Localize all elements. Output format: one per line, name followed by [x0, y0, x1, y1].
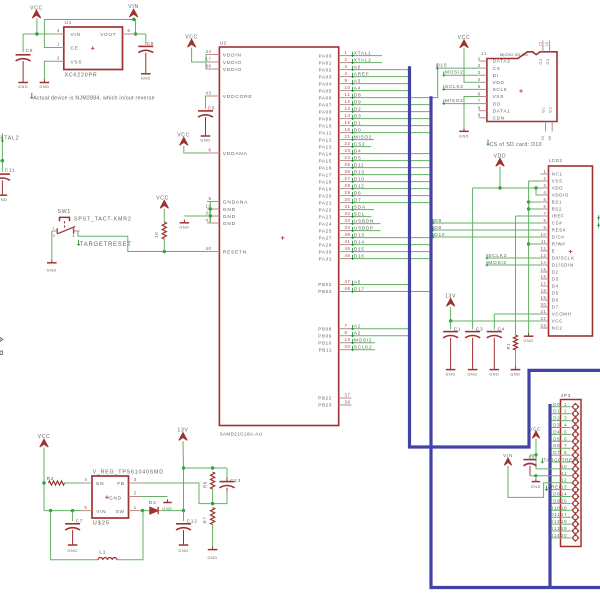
- svg-text:1: 1: [478, 56, 481, 61]
- wire net D10 to SD CS: [431, 68, 479, 98]
- svg-text:VDDCORE: VDDCORE: [223, 94, 253, 100]
- U2 pin 39 PA27 net D13: [339, 237, 352, 239]
- wire net D16: [351, 258, 429, 260]
- node BS2 junction: [527, 207, 530, 210]
- ground under C1: [450, 366, 452, 369]
- wire net D1: [351, 125, 429, 127]
- svg-text:SCLK2: SCLK2: [445, 84, 464, 90]
- net label SCLK2 (LCD): [486, 254, 488, 259]
- svg-text:D7: D7: [552, 305, 559, 310]
- svg-text:GND: GND: [446, 373, 456, 377]
- LCD2 pin 10 D/C#: [541, 236, 549, 238]
- wire VIN to JP3 pin 12: [508, 466, 573, 498]
- JP3 pin 19 pad: [572, 528, 579, 535]
- wire VDDIO branch: [536, 188, 541, 195]
- wire net D10 to LCD D/C#: [432, 236, 540, 238]
- ground under C7: [72, 542, 74, 545]
- svg-text:23: 23: [345, 148, 351, 153]
- svg-text:9: 9: [544, 225, 547, 230]
- svg-text:MISO2: MISO2: [445, 98, 464, 104]
- svg-text:D1: D1: [553, 409, 560, 414]
- svg-text:8: 8: [544, 218, 547, 223]
- svg-text:7: 7: [564, 443, 567, 448]
- ground under C3: [472, 366, 474, 369]
- svg-text:D11: D11: [354, 162, 364, 168]
- svg-text:2: 2: [564, 409, 567, 414]
- resistor R7: [211, 508, 215, 525]
- JP3 pin 5 pad: [572, 431, 579, 438]
- svg-text:C9: C9: [26, 48, 34, 54]
- svg-text:20: 20: [345, 344, 351, 349]
- svg-text:32: 32: [345, 211, 351, 216]
- U2 pin 10 PA05 net A4: [339, 90, 352, 92]
- svg-text:CS2: CS2: [354, 141, 365, 147]
- net label D8: [352, 94, 354, 99]
- LCD2 pin 22 VCC: [541, 320, 549, 322]
- U2 pin 2 PA01 net XTAL2: [339, 62, 352, 64]
- bus digital (D0-D17): [431, 96, 600, 587]
- wire net D9: [351, 104, 429, 106]
- svg-text:D13: D13: [550, 526, 560, 531]
- svg-text:DATA1: DATA1: [493, 108, 511, 113]
- wire net MISO2: [351, 139, 374, 141]
- svg-text:11: 11: [541, 239, 547, 244]
- node VIN junction: [35, 32, 38, 35]
- svg-text:17: 17: [561, 512, 567, 517]
- svg-text:14: 14: [345, 113, 351, 118]
- svg-text:36: 36: [548, 136, 552, 141]
- JP3 pin 3 pad: [572, 417, 579, 424]
- svg-text:NC1: NC1: [552, 172, 563, 177]
- U$25 pin 3 FB: [129, 482, 142, 484]
- svg-text:SW: SW: [116, 509, 125, 515]
- LCD2 pin 19 D6: [541, 299, 549, 301]
- net label D0: [352, 129, 354, 134]
- LCD2 pin 11 R/W#: [541, 243, 549, 245]
- LCD2 pin 18 D5: [541, 292, 549, 294]
- net label XTAL1: [352, 52, 354, 57]
- svg-text:D5: D5: [354, 155, 362, 161]
- capacitor C1: [450, 321, 452, 329]
- LCD2 pin 13 D0/SCLK: [541, 257, 549, 259]
- svg-text:PB08: PB08: [318, 326, 332, 331]
- net label A3: [352, 80, 354, 85]
- capacitor C6 (VCC decoupling): [530, 454, 536, 456]
- ground under C11: [1, 192, 3, 195]
- wire JP3 pin 18: [552, 523, 571, 525]
- net label TARGETRESET: [78, 240, 80, 246]
- svg-text:47: 47: [345, 279, 351, 284]
- svg-text:16: 16: [345, 127, 351, 132]
- wire net USBDN: [351, 223, 380, 225]
- wire IREF to R1: [516, 215, 541, 217]
- node SW junction: [141, 509, 144, 512]
- svg-text:22: 22: [541, 316, 547, 321]
- svg-text:43: 43: [205, 91, 211, 96]
- wire net D4: [351, 153, 429, 155]
- wire net D6: [351, 195, 429, 197]
- svg-text:CS#: CS#: [552, 221, 563, 226]
- svg-text:48: 48: [345, 286, 351, 291]
- node GND junction: [534, 474, 537, 477]
- svg-text:D5: D5: [553, 436, 560, 441]
- LCD2 pin 15 D2: [541, 271, 549, 273]
- svg-text:D1/SDIN: D1/SDIN: [552, 263, 574, 268]
- svg-text:J1: J1: [481, 51, 487, 56]
- svg-text:V_REG_TPS61040SMD: V_REG_TPS61040SMD: [93, 470, 164, 476]
- svg-text:3: 3: [564, 416, 567, 421]
- svg-text:D9: D9: [553, 498, 560, 503]
- svg-text:2: 2: [57, 55, 60, 60]
- svg-text:8: 8: [564, 450, 567, 455]
- wire JP3 pin 1: [552, 406, 571, 408]
- svg-text:SPST_TACT-KMR2: SPST_TACT-KMR2: [74, 216, 132, 222]
- wire net D15: [351, 251, 429, 253]
- svg-text:D0: D0: [354, 127, 362, 133]
- wire net D11: [351, 167, 429, 169]
- svg-text:9: 9: [478, 113, 481, 118]
- net label D10 (SD): [436, 64, 438, 69]
- svg-text:23: 23: [541, 323, 547, 328]
- svg-text:GND: GND: [68, 549, 78, 553]
- wire net D13: [351, 174, 429, 176]
- svg-text:PA09: PA09: [319, 116, 332, 121]
- net label D13: [352, 171, 354, 176]
- svg-text:D8: D8: [434, 218, 442, 224]
- svg-text:D13: D13: [354, 169, 365, 175]
- svg-text:GND: GND: [0, 198, 7, 202]
- U2 pin 36 VDDIO: [207, 68, 219, 70]
- U2 pin 18 GND: [207, 208, 219, 210]
- capacitor C5 (VDDCORE decoupling): [206, 96, 208, 109]
- resistor R6: [211, 472, 215, 489]
- wire 13V output node: [182, 441, 185, 468]
- svg-text:29: 29: [345, 190, 351, 195]
- svg-text:SW1: SW1: [58, 209, 72, 215]
- wire 13V rail: [450, 307, 452, 321]
- wire JP3 pin 16: [552, 509, 571, 511]
- JP3 pin 20 pad: [572, 534, 579, 541]
- U2 pin 35 GND: [207, 215, 219, 217]
- U2 pin 33 PA24 net USBDN: [339, 223, 352, 225]
- U2 pin 1 PA00 net XTAL1: [339, 55, 352, 57]
- ground under LCD VSS: [528, 333, 530, 336]
- svg-text:14: 14: [541, 260, 547, 265]
- J1 pin 7 DO: [479, 103, 487, 105]
- svg-text:U1: U1: [65, 20, 73, 26]
- wire U2 ground to GND symbol: [184, 215, 210, 217]
- svg-text:PA01: PA01: [319, 60, 332, 65]
- U2 pin 44 VDDIN: [207, 54, 219, 56]
- LCD connector LCD2 body: [549, 166, 593, 336]
- svg-text:A1: A1: [354, 324, 361, 330]
- svg-text:17: 17: [205, 57, 211, 62]
- svg-text:GND: GND: [141, 77, 151, 81]
- svg-text:SAMD21G18A-AU: SAMD21G18A-AU: [220, 431, 263, 436]
- svg-text:GND: GND: [489, 373, 499, 377]
- svg-text:PA25: PA25: [319, 228, 332, 233]
- wire VSS/BS ground rail: [529, 180, 541, 182]
- wire net SCLK2 to LCD D0/SCLK: [487, 257, 541, 259]
- svg-text:28: 28: [345, 183, 351, 188]
- svg-text:19: 19: [541, 295, 547, 300]
- net label D7: [352, 199, 354, 204]
- net label MOSI2 (LCD): [486, 261, 488, 266]
- svg-text:16: 16: [561, 505, 567, 510]
- svg-text:12: 12: [561, 478, 567, 483]
- svg-text:15: 15: [561, 498, 567, 503]
- JP3 pin 12 pad: [572, 479, 579, 486]
- svg-text:19: 19: [561, 526, 567, 531]
- svg-text:GND: GND: [223, 221, 236, 227]
- svg-text:VCC: VCC: [529, 426, 541, 431]
- svg-text:D4: D4: [553, 429, 560, 434]
- wire GND to JP3 pin 11: [536, 475, 573, 477]
- svg-text:D10: D10: [354, 176, 365, 182]
- svg-text:SCLK: SCLK: [493, 87, 508, 92]
- LCD2 pin 4 VDDIO: [541, 194, 549, 196]
- wire net A3: [351, 83, 408, 85]
- svg-text:D/C#: D/C#: [552, 235, 565, 240]
- net label SCLK2: [352, 346, 354, 351]
- svg-text:D15: D15: [354, 246, 365, 252]
- wire JP3 pin 2: [552, 413, 571, 415]
- U2 pin 38 PB23 (nc): [339, 404, 352, 406]
- U1 pin 1 CE: [54, 47, 64, 49]
- U1 pin 2 VSS: [54, 60, 64, 62]
- svg-text:PA15: PA15: [319, 158, 332, 163]
- svg-text:1: 1: [52, 226, 55, 231]
- wire SD VSS to ground: [464, 97, 479, 129]
- wire JP3 pin 7: [552, 447, 571, 449]
- svg-text:6: 6: [564, 436, 567, 441]
- net label D10: [352, 178, 354, 183]
- net label USBDN: [352, 220, 354, 225]
- wire pull-up to reset net: [163, 239, 165, 252]
- svg-text:5: 5: [85, 505, 88, 510]
- svg-text:18: 18: [541, 288, 547, 293]
- svg-text:IREF: IREF: [552, 214, 565, 219]
- svg-text:R1: R1: [506, 343, 511, 350]
- ground under SD card: [463, 128, 465, 131]
- svg-text:D7: D7: [354, 197, 362, 203]
- wire JP3 pin 9: [552, 461, 571, 463]
- svg-text:12: 12: [345, 99, 351, 104]
- svg-text:GND: GND: [468, 373, 478, 377]
- wire net A0: [351, 69, 408, 71]
- net label D3: [352, 115, 354, 120]
- ground under U1 VSS: [43, 79, 45, 82]
- net label SCL: [352, 213, 354, 218]
- JP3 pin 1 pad: [572, 403, 579, 410]
- wire net CS2: [351, 146, 371, 148]
- svg-text:VIN: VIN: [96, 509, 106, 515]
- svg-text:PA13: PA13: [319, 144, 332, 149]
- svg-text:30: 30: [345, 197, 351, 202]
- U$25 pin 2 GND: [129, 496, 142, 498]
- U2 pin 26 PA17 net D13: [339, 174, 352, 176]
- node VIN arrow junction: [132, 18, 135, 21]
- svg-text:USBDN: USBDN: [354, 218, 374, 224]
- resistor R1 (IREF): [513, 335, 517, 350]
- node 13V top junction: [182, 466, 185, 469]
- svg-text:7: 7: [478, 98, 481, 103]
- svg-text:PA24: PA24: [319, 221, 332, 226]
- svg-text:8: 8: [478, 106, 481, 111]
- svg-text:VOUT: VOUT: [100, 32, 116, 38]
- net label D1: [352, 122, 354, 127]
- svg-text:41: 41: [345, 239, 351, 244]
- U2 pin 29 PA20 net D6: [339, 195, 352, 197]
- svg-text:G1: G1: [542, 107, 546, 113]
- switch SW1 actuator: [60, 217, 70, 221]
- svg-text:GND: GND: [39, 85, 49, 89]
- J1 pin 3 DI: [479, 74, 487, 76]
- node divider junction: [211, 502, 214, 505]
- svg-text:15: 15: [538, 42, 542, 47]
- svg-text:A4: A4: [354, 85, 361, 91]
- wire net D3: [351, 118, 429, 120]
- svg-text:8: 8: [345, 330, 348, 335]
- svg-text:PB11: PB11: [319, 347, 332, 352]
- node C7 junction: [71, 509, 74, 512]
- svg-text:14: 14: [561, 492, 567, 497]
- svg-text:GND: GND: [223, 214, 236, 220]
- U2 pin 16 PA11 net D0: [339, 132, 352, 134]
- svg-text:VDDIO: VDDIO: [223, 60, 242, 66]
- JP3 pin 7 pad: [572, 445, 579, 452]
- svg-text:36: 36: [205, 64, 211, 69]
- wire net MISO2 to SD DO: [444, 103, 479, 105]
- svg-text:VCOMH: VCOMH: [552, 312, 572, 317]
- wire VCC input rail: [43, 448, 45, 511]
- JP3 pin 9 pad: [572, 459, 579, 466]
- U2 pin 15 PA10 net D1: [339, 125, 352, 127]
- U2 pin 43 VDDCORE: [207, 95, 219, 97]
- node reset pull-up junction: [163, 250, 166, 253]
- svg-text:D3: D3: [553, 423, 560, 428]
- svg-text:D5: D5: [552, 291, 559, 296]
- wire net D7: [351, 202, 429, 204]
- U1 origin cross: [91, 47, 95, 49]
- net label A5: [352, 281, 354, 286]
- svg-text:PB02: PB02: [318, 282, 332, 287]
- wire JP3 pin 14: [552, 496, 571, 498]
- svg-text:22: 22: [345, 141, 351, 146]
- bus JP3 feeder: [548, 404, 551, 588]
- svg-text:GND: GND: [179, 226, 189, 230]
- svg-text:A3: A3: [354, 78, 361, 84]
- wire JP3 pin 3: [552, 420, 571, 422]
- node VDDIO branch junction: [534, 186, 537, 189]
- wire JP3 pin 15: [552, 502, 571, 504]
- resistor R3 pull-up: [162, 222, 166, 239]
- inductor L1 loop wire: [51, 511, 98, 560]
- J1 shield tab G1: [545, 122, 547, 132]
- wire D3 to 13V node: [162, 510, 184, 512]
- svg-text:19: 19: [345, 337, 351, 342]
- svg-text:11: 11: [345, 92, 351, 97]
- net label MOSI2: [352, 339, 354, 344]
- U2 pin 7 PB08 net A1: [339, 328, 352, 330]
- svg-text:BS2: BS2: [552, 207, 562, 212]
- svg-text:PA12: PA12: [319, 137, 332, 142]
- wire U2 ground pins tie: [209, 202, 211, 224]
- svg-text:PA06: PA06: [319, 95, 332, 100]
- U2 pin 3 PA02 net A0: [339, 69, 352, 71]
- wire net D2: [351, 111, 429, 113]
- wire VDD to VDDANA: [184, 146, 207, 153]
- svg-text:2: 2: [72, 226, 75, 231]
- svg-text:9: 9: [345, 78, 348, 83]
- svg-text:39: 39: [345, 232, 351, 237]
- wire net SDA: [351, 209, 374, 211]
- net label A1: [352, 325, 354, 330]
- svg-text:D3: D3: [149, 500, 157, 506]
- svg-text:D2: D2: [552, 270, 559, 275]
- svg-text:PA20: PA20: [319, 193, 332, 198]
- wire net XTAL2: [351, 62, 382, 64]
- capacitor C7: [72, 511, 74, 521]
- svg-text:MISO2: MISO2: [354, 134, 372, 140]
- svg-text:D13: D13: [354, 232, 365, 238]
- svg-text:7: 7: [345, 323, 348, 328]
- ground under C8: [145, 71, 147, 74]
- wire VSS pin 2 to ground: [44, 61, 53, 79]
- svg-text:D3: D3: [552, 277, 559, 282]
- U2 pin 47 PB02 net A5: [339, 284, 352, 286]
- U2 pin 14 PA09 net D3: [339, 118, 352, 120]
- svg-text:NC2: NC2: [552, 326, 563, 331]
- svg-text:17: 17: [541, 281, 547, 286]
- J1 pin 6 VSS: [479, 96, 487, 98]
- svg-text:VDDIN: VDDIN: [223, 52, 242, 58]
- svg-text:D4: D4: [552, 284, 559, 289]
- svg-text:PA22: PA22: [319, 207, 332, 212]
- net label XTAL2 (left edge): [1, 134, 3, 172]
- LCD2 pin 8 CS#: [541, 222, 549, 224]
- wire VIN row: [44, 510, 82, 512]
- svg-text:MOSI2: MOSI2: [488, 260, 507, 266]
- svg-text:D3: D3: [354, 113, 362, 119]
- wire net SCLK2 to SD SCLK: [444, 88, 479, 90]
- svg-text:GND: GND: [18, 85, 28, 89]
- svg-text:16: 16: [541, 274, 547, 279]
- JP3 pin 10 pad: [572, 465, 579, 472]
- svg-text:D1: D1: [354, 120, 362, 126]
- svg-text:LCD2: LCD2: [549, 158, 563, 163]
- svg-text:PA00: PA00: [319, 53, 332, 58]
- svg-text:A5: A5: [354, 279, 361, 285]
- net label D12: [352, 185, 354, 190]
- net label D9: [352, 101, 354, 106]
- svg-text:D0/SCLK: D0/SCLK: [552, 256, 575, 261]
- svg-text:13: 13: [541, 253, 547, 258]
- svg-text:SDA: SDA: [354, 204, 366, 210]
- svg-text:5: 5: [564, 429, 567, 434]
- wire net A4: [351, 90, 408, 92]
- svg-text:PB22: PB22: [318, 396, 332, 401]
- LCD2 pin 12 E: [541, 250, 549, 252]
- net label D14: [352, 241, 354, 246]
- svg-text:GND: GND: [459, 134, 469, 138]
- svg-text:VSS: VSS: [552, 179, 563, 184]
- LCD2 pin 9 RES#: [541, 229, 549, 231]
- node XTAL2 junction: [1, 159, 4, 162]
- svg-text:D9: D9: [354, 99, 362, 105]
- svg-text:XTAL1: XTAL1: [354, 50, 372, 56]
- svg-text:VDD: VDD: [552, 186, 563, 191]
